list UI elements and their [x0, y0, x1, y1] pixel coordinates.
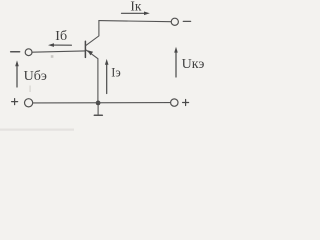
- ground symbol below junction: [94, 105, 102, 115]
- current arrow Ib (pointing left): [48, 43, 72, 47]
- svg-text:Iэ: Iэ: [111, 65, 121, 79]
- bottom rail wire: [33, 102, 171, 104]
- svg-text:Iб: Iб: [55, 29, 67, 44]
- voltage arrow Ube (pointing up): [15, 60, 19, 87]
- transistor VT1 base bar: [84, 41, 86, 57]
- wire: base input to transistor base: [32, 51, 85, 52]
- terminal circle bottom-right: [171, 99, 178, 106]
- svg-text:Uбэ: Uбэ: [24, 69, 47, 84]
- terminal circle bottom-left: [25, 99, 33, 107]
- paper background: [0, 0, 234, 142]
- current arrow Ie (pointing up): [105, 59, 109, 94]
- current arrow Ik (pointing right): [121, 12, 149, 16]
- voltage arrow Uke (pointing up): [174, 47, 178, 77]
- transistor collector lead + wire up to top rail: [86, 21, 99, 46]
- minus sign (base input, top-left): [11, 51, 20, 53]
- terminal circle top-right (collector output): [171, 18, 178, 25]
- terminal circle top-left (base input): [25, 49, 32, 56]
- plus sign bottom-left: [12, 99, 18, 105]
- minus sign (collector output, top-right): [183, 20, 190, 22]
- plus sign bottom-right: [183, 100, 189, 106]
- transistor emitter lead + wire down to bottom rail: [86, 50, 98, 103]
- wire: top rail to collector terminal: [99, 21, 171, 22]
- junction node (emitter to bottom rail): [96, 101, 101, 106]
- transistor emitter arrowhead (PNP, points toward base): [87, 50, 93, 55]
- svg-text:Uкэ: Uкэ: [182, 57, 205, 72]
- svg-text:Iк: Iк: [130, 0, 141, 13]
